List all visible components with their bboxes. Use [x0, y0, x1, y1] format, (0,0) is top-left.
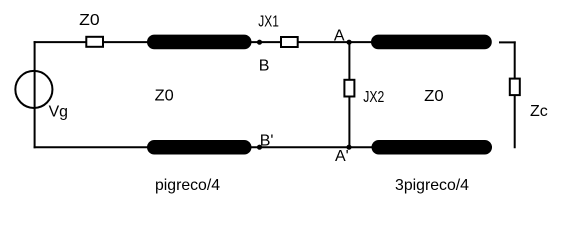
- svg-text:Z0: Z0: [424, 88, 444, 105]
- svg-text:3pigreco/4: 3pigreco/4: [395, 177, 469, 194]
- svg-text:B: B: [259, 57, 270, 74]
- svg-text:pigreco/4: pigreco/4: [155, 177, 220, 194]
- svg-text:Z0: Z0: [155, 88, 174, 105]
- svg-text:JX2: JX2: [363, 89, 384, 106]
- svg-text:JX1: JX1: [258, 13, 279, 30]
- svg-text:A': A': [335, 148, 349, 165]
- svg-text:B': B': [260, 132, 274, 149]
- svg-text:Vg: Vg: [49, 104, 68, 121]
- svg-text:Zc: Zc: [530, 103, 548, 120]
- svg-text:A: A: [334, 27, 345, 44]
- svg-text:Z0: Z0: [79, 12, 100, 29]
